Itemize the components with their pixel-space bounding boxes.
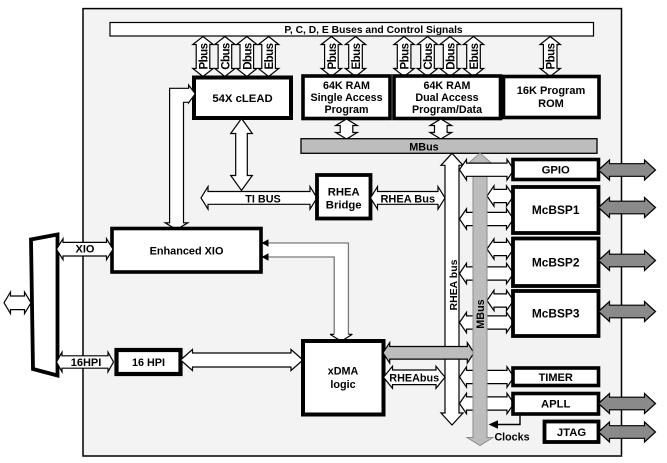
TI BUS arrow (201, 187, 317, 210)
XIO arrow (57, 239, 114, 260)
arrow 16 HPI to xDMA logic (181, 350, 304, 371)
svg-text:Dbus: Dbus (242, 43, 254, 70)
bus arrow Ebus (to 54X cLEAD) (258, 37, 278, 77)
bent arrow Enhanced XIO to 54X cLEAD (165, 85, 195, 230)
svg-text:Ebus: Ebus (469, 43, 481, 69)
svg-text:McBSP2: McBSP2 (532, 255, 580, 269)
arrow RHEA bus to McBSP1 (460, 209, 514, 229)
svg-text:16 HPI: 16 HPI (132, 357, 165, 369)
block TIMER (513, 368, 599, 386)
svg-text:McBSP3: McBSP3 (532, 307, 580, 321)
bus arrow Dbus (to 64K RAM dual) (440, 37, 460, 77)
svg-text:Cbus: Cbus (423, 43, 435, 70)
block 64K RAM Single Access Program (303, 76, 390, 119)
svg-text:XIO: XIO (76, 244, 95, 256)
block 54X cLEAD (194, 78, 291, 119)
svg-text:Pbus: Pbus (546, 43, 558, 69)
bus arrow Dbus (to 54X cLEAD) (237, 37, 257, 77)
svg-text:MBus: MBus (475, 299, 487, 328)
svg-text:xDMA: xDMA (328, 366, 359, 378)
external I/O arrow JTAG (599, 422, 656, 442)
external I/O arrow McBSP2 (599, 251, 656, 271)
external I/O arrow McBSP1 (599, 198, 656, 218)
svg-text:Program/Data: Program/Data (412, 104, 483, 116)
RHEA Bus arrow (371, 187, 446, 210)
svg-text:Bridge: Bridge (326, 200, 362, 212)
bus arrow Ebus (to 64K RAM single) (345, 37, 365, 77)
arrow RHEA bus to APLL (460, 393, 515, 413)
svg-text:Ebus: Ebus (351, 43, 363, 69)
svg-text:logic: logic (330, 379, 355, 391)
MBus vertical bus bar (467, 153, 493, 445)
svg-text:Pbus: Pbus (400, 43, 412, 69)
external connector symbol (31, 235, 58, 376)
bus bar: P,C,D,E Buses and Control Signals (110, 23, 594, 37)
svg-text:Single Access: Single Access (310, 92, 382, 104)
arrow MBus to McBSP3 (487, 290, 514, 310)
external I/O arrow APLL (599, 394, 656, 414)
block 16 HPI (117, 350, 181, 374)
block McBSP3 (513, 291, 599, 336)
svg-text:RHEA bus: RHEA bus (448, 259, 460, 310)
arrow MBus to McBSP2 (487, 239, 514, 259)
svg-text:Cbus: Cbus (220, 43, 232, 70)
block APLL (513, 394, 599, 415)
bus arrow Pbus (to 64K RAM single) (321, 37, 341, 77)
bus arrow Pbus (to 54X cLEAD) (193, 37, 213, 77)
block GPIO (513, 160, 599, 180)
svg-text:64K RAM: 64K RAM (424, 80, 471, 92)
svg-text:54X cLEAD: 54X cLEAD (212, 93, 272, 105)
svg-text:McBSP1: McBSP1 (532, 203, 580, 217)
svg-text:Pbus: Pbus (199, 43, 211, 69)
block Enhanced XIO (112, 229, 261, 273)
external I/O arrow McBSP3 (599, 302, 656, 322)
outer boundary box (83, 9, 622, 456)
MBus arrow xDMA to MBus vertical (383, 343, 474, 364)
svg-text:Enhanced XIO: Enhanced XIO (150, 245, 224, 257)
svg-text:Dual Access: Dual Access (415, 92, 478, 104)
arrow RHEA bus to McBSP2 (460, 263, 514, 283)
svg-text:MBus: MBus (409, 141, 438, 153)
arrow 64K dual to MBus (430, 119, 452, 139)
svg-text:RHEA Bus: RHEA Bus (380, 193, 435, 205)
svg-text:APLL: APLL (541, 399, 571, 411)
RHEA bus vertical arrow (441, 153, 463, 425)
MBus horizontal bus bar (301, 139, 597, 154)
svg-text:TIMER: TIMER (539, 372, 573, 384)
svg-text:64K RAM: 64K RAM (323, 80, 370, 92)
arrow 64K single to MBus (336, 119, 358, 139)
external bus arrow (left) (4, 292, 31, 314)
block JTAG (545, 422, 599, 443)
svg-text:16HPI: 16HPI (71, 357, 102, 369)
svg-text:Dbus: Dbus (446, 43, 458, 70)
svg-text:Pbus: Pbus (327, 43, 339, 69)
bent arrow Enhanced XIO to xDMA logic (262, 239, 353, 341)
block xDMA logic (303, 341, 384, 415)
svg-text:TI BUS: TI BUS (245, 193, 280, 205)
block RHEA Bridge (317, 175, 371, 219)
bus arrow Cbus (to 54X cLEAD) (215, 37, 235, 77)
arrow RHEA bus to McBSP3 (460, 312, 514, 332)
svg-text:P, C, D, E Buses and Control S: P, C, D, E Buses and Control Signals (284, 25, 463, 36)
arrow MBus to McBSP1 (487, 186, 514, 206)
RHEAbus arrow xDMA to RHEA bus (384, 366, 446, 388)
bus arrow Pbus (to 64K RAM dual) (394, 37, 414, 77)
svg-text:Program: Program (325, 104, 369, 116)
block McBSP2 (513, 239, 599, 287)
external I/O arrow GPIO (599, 160, 656, 180)
bus arrow Pbus (to 16K ROM) (540, 37, 560, 77)
block 64K RAM Dual Access Program/Data (394, 76, 501, 119)
svg-text:RHEAbus: RHEAbus (389, 372, 439, 384)
svg-text:RHEA: RHEA (328, 187, 360, 199)
16HPI arrow (57, 352, 114, 372)
clocks line from APLL (489, 415, 521, 429)
svg-text:JTAG: JTAG (557, 427, 587, 439)
bus arrow Ebus (to 64K RAM dual) (463, 37, 483, 77)
svg-text:Ebus: Ebus (264, 43, 276, 69)
block McBSP1 (513, 187, 599, 233)
arrow RHEA bus to TIMER (460, 367, 515, 387)
svg-text:ROM: ROM (538, 98, 564, 110)
svg-text:Clocks: Clocks (494, 432, 529, 444)
bus arrow Cbus (to 64K RAM dual) (417, 37, 437, 77)
block 16K Program ROM (504, 77, 600, 118)
arrow 54X cLEAD to TI BUS (231, 119, 253, 191)
svg-text:16K Program: 16K Program (517, 85, 586, 97)
arrow RHEA bus to GPIO (460, 159, 515, 180)
svg-text:GPIO: GPIO (542, 165, 570, 177)
